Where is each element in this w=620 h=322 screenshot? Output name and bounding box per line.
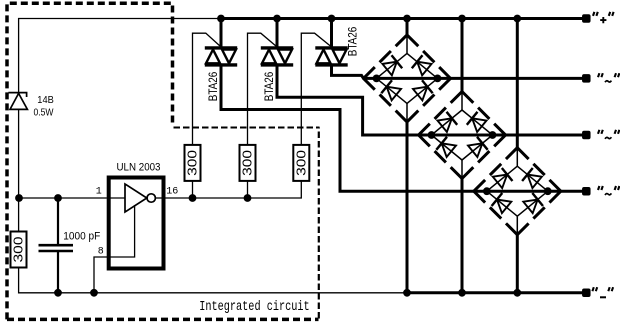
svg-text:BTA26: BTA26: [262, 71, 276, 101]
svg-text:300: 300: [186, 150, 200, 176]
svg-text:1000 pF: 1000 pF: [63, 231, 100, 243]
svg-text:300: 300: [241, 150, 255, 176]
svg-text:Integrated circuit: Integrated circuit: [199, 300, 310, 315]
svg-text:ULN 2003: ULN 2003: [117, 162, 161, 174]
svg-text:300: 300: [294, 150, 308, 176]
svg-text:0.5W: 0.5W: [34, 107, 54, 119]
svg-text:16: 16: [166, 187, 178, 198]
svg-text:14B: 14B: [37, 94, 54, 106]
svg-text:BTA26: BTA26: [345, 26, 359, 56]
svg-text:8: 8: [98, 247, 104, 258]
svg-text:1: 1: [96, 187, 102, 198]
svg-text:300: 300: [12, 236, 26, 262]
svg-text:BTA26: BTA26: [206, 71, 220, 101]
